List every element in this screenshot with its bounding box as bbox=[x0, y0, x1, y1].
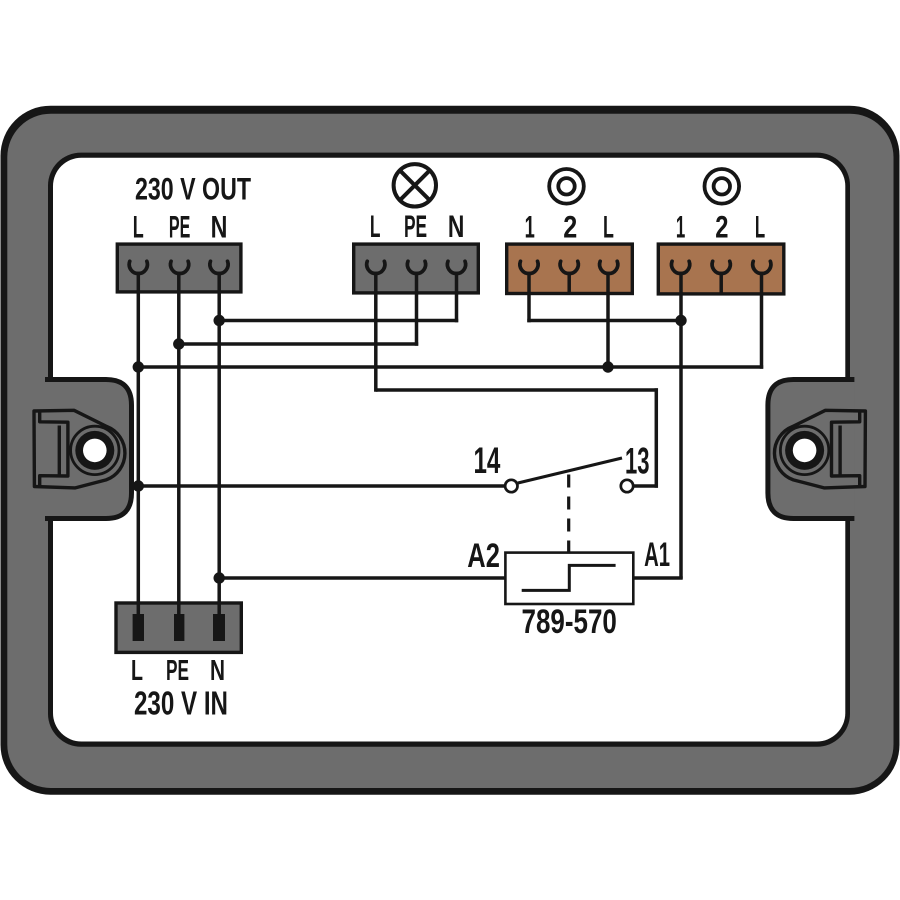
svg-text:1: 1 bbox=[525, 209, 535, 245]
svg-text:230 V OUT: 230 V OUT bbox=[135, 171, 251, 207]
mounting lug left bbox=[34, 380, 132, 519]
junction N / lamp N bbox=[214, 315, 225, 326]
terminal block X5 (230 V IN) bbox=[116, 603, 241, 652]
labels L PE N (block X2) bbox=[370, 208, 464, 244]
lamp symbol bbox=[394, 164, 436, 206]
junction PE / lamp PE bbox=[173, 338, 184, 349]
wire L main vertical bbox=[137, 272, 141, 620]
svg-text:N: N bbox=[210, 655, 225, 687]
svg-text:PE: PE bbox=[166, 655, 189, 687]
wire PE to lamp PE horizontal bbox=[179, 342, 418, 346]
wire N main vertical bbox=[217, 272, 221, 620]
mounting lug right bbox=[768, 380, 866, 519]
svg-text:13: 13 bbox=[625, 441, 650, 482]
wire lamp PE vertical bbox=[415, 272, 419, 346]
svg-text:2: 2 bbox=[563, 209, 577, 245]
svg-text:L: L bbox=[603, 209, 614, 245]
wire N to lamp N horizontal bbox=[219, 319, 458, 323]
svg-text:A1: A1 bbox=[644, 536, 670, 574]
wire socket2 pin1 vertical bbox=[679, 272, 683, 579]
junction socket1 L / distribution bbox=[602, 361, 613, 372]
wire L distribution horizontal bbox=[138, 365, 763, 369]
socket symbol 1 bbox=[549, 169, 584, 204]
labels 1 2 L (block X4) bbox=[676, 209, 765, 245]
relay contact 14 terminal bbox=[505, 480, 517, 492]
enclosure outer frame bbox=[1, 106, 900, 795]
wire lamp N vertical bbox=[455, 272, 459, 323]
wire N to coil A2 horizontal bbox=[219, 576, 505, 580]
wire coil A1 horizontal bbox=[633, 576, 682, 580]
relay coil 789-570 box bbox=[505, 553, 633, 604]
svg-text:L: L bbox=[755, 209, 765, 245]
wire contact 13 riser vertical bbox=[655, 388, 659, 487]
svg-text:L: L bbox=[370, 208, 381, 244]
wire lamp L to contact 13 horizontal bbox=[376, 388, 658, 392]
wire lamp L vertical bbox=[374, 272, 378, 392]
svg-text:PE: PE bbox=[404, 208, 427, 244]
svg-text:789-570: 789-570 bbox=[522, 603, 617, 641]
coil step symbol bbox=[522, 565, 616, 590]
wire socket pins 1 bridge horizontal bbox=[527, 319, 681, 323]
svg-text:L: L bbox=[131, 655, 143, 687]
mechanical link (dashed) bbox=[567, 475, 570, 553]
contact blade bbox=[518, 458, 622, 483]
wire contact 13 stub horizontal bbox=[634, 484, 658, 488]
svg-text:14: 14 bbox=[473, 440, 500, 481]
relay contact 13 terminal bbox=[621, 480, 633, 492]
wire PE main vertical bbox=[177, 272, 181, 620]
svg-text:L: L bbox=[133, 209, 144, 245]
labels L PE N (block X1) bbox=[133, 209, 228, 245]
svg-text:N: N bbox=[211, 209, 228, 245]
junction L / distribution bbox=[133, 361, 144, 372]
labels 1 2 L (block X3) bbox=[525, 209, 614, 245]
enclosure inner opening bbox=[48, 153, 850, 747]
svg-text:N: N bbox=[448, 208, 465, 244]
wire socket2 L vertical bbox=[760, 272, 764, 369]
terminal block X3 (socket 1) bbox=[507, 244, 633, 293]
svg-text:PE: PE bbox=[169, 209, 190, 245]
terminal block X1 (230 V OUT) bbox=[117, 244, 241, 292]
svg-text:1: 1 bbox=[676, 209, 685, 245]
junction N / coil A2 bbox=[214, 572, 225, 583]
wire socket1 L vertical bbox=[606, 272, 610, 367]
junction L / contact 14 feed bbox=[133, 480, 144, 491]
socket symbol 2 bbox=[705, 169, 740, 204]
terminal block X4 (socket 2) bbox=[658, 244, 784, 294]
svg-text:2: 2 bbox=[715, 209, 728, 245]
wire socket1 pin1 vertical bbox=[527, 272, 531, 323]
svg-text:A2: A2 bbox=[467, 537, 500, 575]
wire L to contact 14 horizontal bbox=[138, 484, 504, 488]
labels L PE N (block X5) bbox=[131, 655, 225, 687]
junction socket2 pin1 / bridge bbox=[675, 315, 686, 326]
svg-text:230 V IN: 230 V IN bbox=[134, 686, 228, 723]
terminal block X2 (lamp) bbox=[354, 244, 479, 293]
